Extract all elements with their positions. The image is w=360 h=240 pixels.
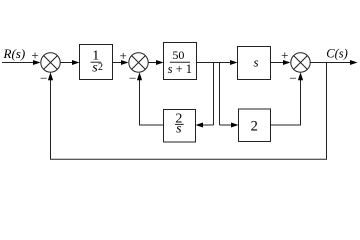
svg-text:+: + <box>120 48 127 63</box>
svg-text:−: − <box>290 71 297 86</box>
svg-text:−: − <box>129 71 136 86</box>
svg-text:2: 2 <box>251 119 258 135</box>
svg-text:s: s <box>176 121 182 136</box>
svg-text:−: − <box>40 71 47 86</box>
svg-text:50: 50 <box>172 48 184 62</box>
svg-text:R(s): R(s) <box>3 46 26 61</box>
svg-text:2: 2 <box>98 62 103 73</box>
svg-text:s + 1: s + 1 <box>168 62 192 76</box>
svg-text:C(s): C(s) <box>326 47 348 61</box>
svg-text:s: s <box>253 54 258 69</box>
svg-text:+: + <box>31 47 38 62</box>
svg-text:+: + <box>281 47 288 62</box>
